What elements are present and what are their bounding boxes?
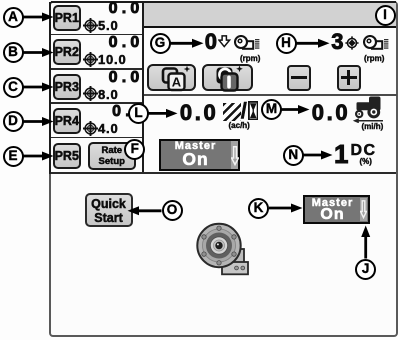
callout circle B: [3, 42, 24, 63]
row divider 1: [51, 34, 142, 36]
callout circle G: [150, 33, 171, 54]
row divider 3: [51, 102, 142, 104]
PR4 row value 0.0: [89, 104, 147, 120]
bottom Master On button: [303, 195, 370, 224]
fan rate value 3 (callout H): [304, 31, 344, 53]
unit (ac/h): [229, 121, 250, 130]
callout circle L: [128, 103, 149, 124]
auto-rate icon button: [147, 64, 197, 91]
PR5 button: [53, 143, 82, 169]
minus button: [287, 65, 312, 91]
hatched area icon: [223, 103, 241, 121]
reticle icon row1: [82, 17, 99, 34]
frame top darker line: [51, 1, 396, 3]
unit (mi/h): [362, 122, 384, 131]
area rate value 0.0 (callout L): [178, 102, 218, 124]
rate value 8.0: [98, 88, 118, 101]
PR4 button: [53, 108, 82, 134]
callout circle K: [248, 198, 269, 219]
fan speed value 0 (callout G): [177, 31, 217, 53]
hollow down arrow: [218, 35, 231, 48]
reticle icon row4: [82, 120, 99, 137]
callout circle H: [276, 33, 297, 54]
callout circle A: [3, 7, 24, 28]
callout circle I: [375, 5, 396, 26]
fan icon H: [363, 35, 389, 50]
left panel right border: [142, 3, 144, 173]
PR3 button: [53, 74, 82, 100]
ground speed value 0.0 (callout M): [310, 102, 350, 124]
duty cycle value 1 (callout N): [323, 141, 349, 167]
reticle icon row3: [82, 85, 99, 102]
Rate Setup button: [88, 142, 137, 170]
slash separator: [241, 100, 247, 122]
rate value 5.0: [98, 19, 118, 32]
right panel mid divider: [144, 94, 397, 96]
callout circle O: [162, 200, 183, 221]
callout circle E: [3, 146, 24, 167]
console bottom divider: [51, 172, 396, 174]
top gray title bar: [144, 3, 397, 27]
row divider 2: [51, 68, 142, 70]
PR1 row value 0.0: [86, 1, 144, 17]
PR2 button: [53, 39, 82, 65]
PR1 button: [53, 5, 82, 31]
callout circle D: [3, 111, 24, 132]
label DC: [351, 143, 377, 159]
callout circle F: [124, 139, 145, 160]
rate value 4.0: [98, 122, 118, 135]
tractor icon: [352, 95, 386, 123]
reticle icon row2: [82, 51, 99, 68]
callout circle N: [283, 145, 304, 166]
blower graphic: [196, 221, 250, 277]
fan icon G: [234, 35, 260, 50]
rate value 10.0: [98, 53, 127, 66]
unit (rpm) left: [240, 54, 260, 63]
frame left dark segment (console area): [49, 2, 51, 174]
gps target icon: [345, 36, 359, 50]
unit (rpm) right: [364, 54, 384, 63]
PR2 row value 0.0: [86, 35, 144, 51]
manual-rate icon button: [202, 64, 253, 91]
plus button: [337, 65, 362, 91]
row divider 4: [51, 137, 142, 139]
callout circle C: [3, 77, 24, 98]
PR3 row value 0.0: [86, 70, 144, 86]
hourglass icon: [248, 101, 259, 121]
console Master On button: [159, 139, 241, 172]
Quick Start button: [85, 193, 133, 227]
unit (%): [360, 157, 372, 166]
callout circle M: [261, 99, 282, 120]
callout circle J: [355, 259, 376, 280]
